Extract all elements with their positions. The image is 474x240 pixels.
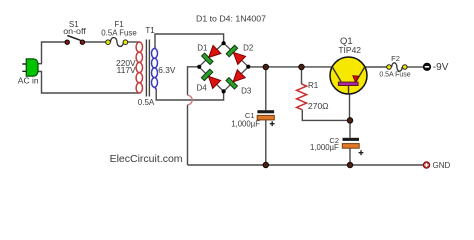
wire: bridge left node down to ground rail (with hop gap) (188, 67, 200, 165)
svg-text:270Ω: 270Ω (308, 101, 329, 111)
svg-text:D3: D3 (241, 86, 252, 95)
junction: R1 top (299, 64, 304, 69)
svg-text:AC in: AC in (18, 76, 39, 86)
svg-text:D1 to D4: 1N4007: D1 to D4: 1N4007 (196, 14, 266, 23)
junction: C2 ground (347, 162, 352, 167)
svg-text:117V: 117V (117, 65, 136, 75)
svg-text:R1: R1 (308, 81, 319, 90)
svg-text:0.5A Fuse: 0.5A Fuse (379, 72, 410, 79)
wire hop over AC wire (188, 95, 193, 104)
junction: C1 top (263, 64, 268, 69)
svg-text:F2: F2 (391, 54, 400, 63)
wire: plug top lead up to AC top rail, to switch (38, 42, 66, 64)
wire: Q1 emitter to fuse F2 (365, 66, 387, 68)
plug P1 AC in (22, 59, 38, 76)
svg-text:GND: GND (433, 161, 451, 170)
wire: Q1 base down to node (349, 94, 351, 120)
wire: fuse F2 to -9V terminal (408, 66, 424, 68)
junction: C1 ground (263, 162, 268, 167)
node: bridge right (246, 65, 250, 69)
wire: R1 bottom lead to base node (302, 110, 350, 121)
wire: primary bottom back to plug (38, 72, 139, 94)
svg-text:6.3V: 6.3V (158, 65, 176, 75)
svg-text:on-off: on-off (63, 27, 86, 36)
wire: bridge right node to Q1 collector (248, 66, 332, 68)
transformer T1 core (146, 40, 149, 97)
terminal -9V (423, 63, 430, 70)
svg-text:ElecCircuit.com: ElecCircuit.com (110, 153, 183, 165)
svg-text:1,000µF: 1,000µF (231, 119, 260, 128)
bridge edges (wires) (199, 43, 248, 91)
node: bridge top (222, 41, 226, 45)
svg-text:1,000µF: 1,000µF (310, 143, 339, 152)
transistor Q1 (330, 57, 367, 94)
svg-text:T1: T1 (145, 26, 155, 35)
wire: secondary top to bridge top node (155, 34, 224, 47)
junction: base node (347, 118, 352, 123)
node: bridge left (197, 65, 201, 69)
fuse F1 (106, 38, 128, 47)
capacitor C1 (257, 110, 274, 126)
svg-text:0.5A: 0.5A (138, 98, 155, 107)
wire: fuse F1 to transformer primary top (127, 41, 139, 43)
terminal GND (423, 162, 429, 168)
svg-text:0.5A Fuse: 0.5A Fuse (101, 28, 137, 37)
wire: switch to fuse F1 (84, 41, 106, 43)
wire: R1 top lead (301, 67, 303, 84)
wire: secondary bottom to bridge bottom node (156, 90, 223, 101)
transformer T1 primary winding (136, 42, 142, 93)
diode D1 (203, 45, 221, 63)
svg-text:-9V: -9V (433, 62, 449, 73)
wire: C1 branch from rail to ground (265, 67, 267, 165)
svg-text:TIP42: TIP42 (338, 45, 361, 55)
diode D3 (227, 70, 245, 88)
diode D2 (227, 46, 245, 64)
svg-text:D1: D1 (197, 43, 208, 52)
wire: ground rail (188, 164, 424, 166)
transformer T1 secondary winding (152, 47, 158, 90)
diode D4 (203, 70, 221, 88)
node: bridge bottom (222, 89, 226, 93)
resistor R1 (297, 84, 307, 110)
svg-text:D2: D2 (243, 43, 254, 52)
fuse F2 (387, 63, 407, 71)
switch S1 (65, 36, 85, 45)
wire: C2 branch from base node to ground (349, 120, 351, 165)
capacitor C2 (342, 138, 363, 155)
svg-text:D4: D4 (196, 84, 207, 93)
